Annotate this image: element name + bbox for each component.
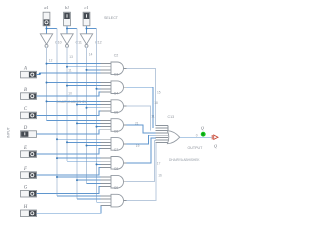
inverter C10 xyxy=(40,34,52,48)
and-gate C9 xyxy=(101,194,127,207)
node junction below S_a xyxy=(46,28,48,30)
wire net a vertical xyxy=(56,29,58,196)
svg-text:11: 11 xyxy=(151,115,155,119)
svg-text:C6: C6 xyxy=(114,129,119,133)
wire input C to AND C4 xyxy=(37,111,101,116)
svg-text:11: 11 xyxy=(68,69,72,73)
wire stub c' to C2 pin3 xyxy=(87,69,101,71)
node junction below S_c xyxy=(86,28,88,30)
wire stub a to C7 pin1 xyxy=(57,157,101,159)
wire C8 output to OR C13 pin7 xyxy=(127,140,156,181)
and-gate C4 xyxy=(101,100,127,113)
svg-text:C5: C5 xyxy=(114,110,119,114)
svg-text:C4: C4 xyxy=(114,92,119,96)
or-gate C13 xyxy=(156,126,180,144)
svg-text:0: 0 xyxy=(196,133,198,137)
svg-text:b1: b1 xyxy=(65,5,69,10)
junction dots net b xyxy=(76,104,78,182)
junction dots net b' xyxy=(66,66,68,144)
wire C7 output to OR C13 pin6 xyxy=(127,138,156,163)
svg-text:H: H xyxy=(23,205,28,210)
junction dots net c' xyxy=(86,69,88,147)
svg-text:DHAIRYA ABHISHEK: DHAIRYA ABHISHEK xyxy=(57,100,88,104)
wire stub b' to C3 pin2 xyxy=(67,85,101,87)
LED output value indicator xyxy=(201,132,206,137)
wire stub a' to C4 pin1 xyxy=(47,100,101,102)
svg-text:Q: Q xyxy=(214,144,217,149)
wire input A to AND C2 xyxy=(37,73,101,75)
svg-text:C7: C7 xyxy=(114,148,119,152)
svg-text:C12: C12 xyxy=(95,40,102,44)
svg-text:Q: Q xyxy=(201,125,204,130)
svg-text:C2: C2 xyxy=(114,54,119,58)
svg-text:17: 17 xyxy=(157,161,161,165)
wire stub c to C3 pin3 xyxy=(97,88,101,90)
svg-text:19: 19 xyxy=(136,144,140,148)
wire C2 output to OR C13 pin1 xyxy=(127,68,156,125)
svg-text:OUTPUT: OUTPUT xyxy=(188,146,204,150)
wire branch select-b to vertical net b xyxy=(67,28,77,30)
svg-text:F: F xyxy=(23,167,27,172)
junction dots net c xyxy=(96,88,98,166)
switch IN_C (state 0) xyxy=(21,112,37,119)
wire stub a' to C5 pin1 xyxy=(47,119,101,121)
svg-text:C10: C10 xyxy=(55,40,62,44)
wire stub a to C9 pin1 xyxy=(57,195,101,197)
switch IN_F (state 0) xyxy=(21,172,37,179)
wire select-b to NOT C11 xyxy=(66,26,68,34)
wire stub b to C8 pin2 xyxy=(77,179,101,181)
wire stub c' to C8 pin3 xyxy=(87,182,101,184)
switch IN_G (state 0) xyxy=(21,190,37,197)
wire input G to AND C8 xyxy=(37,186,101,193)
wire input H to AND C9 xyxy=(37,205,102,213)
switch IN_A (state 0) xyxy=(21,71,37,78)
wire C5 output to OR C13 pin4 xyxy=(127,125,156,133)
wire input E to AND C6 xyxy=(37,149,101,154)
svg-text:15: 15 xyxy=(157,91,161,95)
switch IN_B (state 0) xyxy=(21,93,37,100)
and-gate C5 xyxy=(101,119,127,132)
svg-text:12: 12 xyxy=(49,58,53,62)
wire C4 output to OR C13 pin3 xyxy=(127,106,151,130)
and-gate C6 xyxy=(101,138,127,151)
node junction below S_b xyxy=(66,28,68,30)
wire stub a' to C3 pin1 xyxy=(47,82,101,84)
junction dots net a xyxy=(56,138,58,178)
wire stub b to C4 pin2 xyxy=(77,104,101,106)
svg-text:G: G xyxy=(24,186,28,191)
svg-text:INPUT: INPUT xyxy=(7,126,11,138)
svg-text:18: 18 xyxy=(154,101,158,105)
wire branch select-a to vertical net a xyxy=(47,28,58,30)
svg-text:C3: C3 xyxy=(114,73,119,77)
svg-text:C8: C8 xyxy=(114,167,119,171)
switch S_b (select b, state 1) xyxy=(64,12,71,26)
wire select-c to NOT C12 xyxy=(86,26,88,34)
wire net a' vertical (NOT C10 output) xyxy=(46,47,48,120)
wire select-a to NOT C10 xyxy=(46,26,48,34)
svg-text:DHAIRYA ABHISHEK: DHAIRYA ABHISHEK xyxy=(169,158,200,162)
wire stub a to C8 pin1 xyxy=(57,176,101,178)
and-gate C8 xyxy=(101,175,127,188)
wire C3 output to OR C13 pin2 xyxy=(127,87,154,128)
svg-text:C13: C13 xyxy=(168,115,175,119)
wire input B to AND C3 xyxy=(37,92,101,96)
wire stub b' to C2 pin2 xyxy=(67,66,101,68)
switch IN_D (state 1) xyxy=(21,131,37,138)
svg-text:10: 10 xyxy=(68,92,72,96)
wire stub c' to C4 pin3 xyxy=(87,107,101,109)
wire stub c to C7 pin3 xyxy=(97,163,101,165)
wire stub b to C5 pin2 xyxy=(77,122,101,124)
switch S_a (select a, state 0) xyxy=(43,12,50,26)
wire stub b to C9 pin2 xyxy=(77,198,101,200)
wire stub b' to C7 pin2 xyxy=(67,160,101,162)
wire stub c to C9 pin3 xyxy=(97,201,101,203)
wire stub b' to C6 pin2 xyxy=(67,141,101,143)
wire branch select-c to vertical net c xyxy=(87,28,97,30)
svg-text:14: 14 xyxy=(89,53,93,57)
wire net c' vertical (NOT C12 output) xyxy=(86,47,88,183)
wire net b' vertical (NOT C11 output) xyxy=(66,47,68,161)
wire OR output to LED and output pin xyxy=(180,136,212,138)
node bend on wire A xyxy=(39,73,41,75)
svg-text:c1: c1 xyxy=(85,5,89,10)
and-gate C2 xyxy=(101,62,127,75)
switch IN_H (state 0) xyxy=(21,210,37,217)
svg-text:B: B xyxy=(24,88,27,93)
svg-text:C9: C9 xyxy=(114,186,119,190)
svg-text:A: A xyxy=(23,66,27,71)
switch S_c (select c, state 1) xyxy=(83,12,90,26)
wire stub a' to C2 pin1 xyxy=(47,63,101,65)
svg-text:0: 0 xyxy=(202,133,204,137)
inverter C11 xyxy=(61,34,73,48)
wire stub c to C5 pin3 xyxy=(97,126,101,128)
svg-text:D: D xyxy=(23,126,28,131)
and-gate C3 xyxy=(101,81,127,94)
svg-text:SELECT: SELECT xyxy=(104,16,119,20)
wire C6 output to OR C13 pin5 xyxy=(127,135,156,144)
wire stub a to C6 pin1 xyxy=(57,138,101,140)
svg-text:13: 13 xyxy=(69,55,73,59)
svg-text:16: 16 xyxy=(158,173,162,177)
wire input F to AND C7 xyxy=(37,168,101,176)
output pin Q (flag) xyxy=(212,135,218,139)
junction dots net a' xyxy=(46,63,48,103)
svg-text:C11: C11 xyxy=(76,40,82,44)
wire C9 output to OR C13 pin8 xyxy=(127,143,157,201)
wire net b vertical xyxy=(76,29,78,200)
wire stub c' to C6 pin3 xyxy=(87,145,101,147)
switch IN_E (state 0) xyxy=(21,151,37,158)
svg-text:E: E xyxy=(23,146,27,151)
wire net c vertical xyxy=(96,29,98,203)
wire input D to AND C5 xyxy=(37,130,101,134)
and-gate C7 xyxy=(101,157,127,170)
svg-text:21: 21 xyxy=(135,122,139,126)
inverter C12 xyxy=(80,34,92,48)
svg-text:a1: a1 xyxy=(44,5,48,10)
